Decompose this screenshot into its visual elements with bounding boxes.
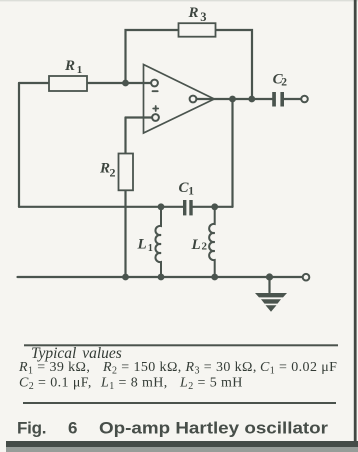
svg-text:2: 2 xyxy=(202,241,208,253)
svg-text:Fig.: Fig. xyxy=(17,419,47,438)
svg-text:Op-amp Hartley oscillator: Op-amp Hartley oscillator xyxy=(99,419,328,438)
svg-text:1: 1 xyxy=(148,243,153,254)
svg-text:1: 1 xyxy=(77,64,83,76)
svg-text:L: L xyxy=(191,237,201,253)
svg-text:L: L xyxy=(137,237,147,253)
svg-text:1: 1 xyxy=(188,186,194,198)
svg-text:3: 3 xyxy=(200,10,206,24)
svg-text:R: R xyxy=(188,5,199,21)
svg-text:2: 2 xyxy=(281,77,287,89)
svg-text:2: 2 xyxy=(110,166,116,180)
svg-text:R: R xyxy=(99,161,110,177)
svg-text:R: R xyxy=(64,58,75,74)
svg-text:6: 6 xyxy=(68,419,77,438)
